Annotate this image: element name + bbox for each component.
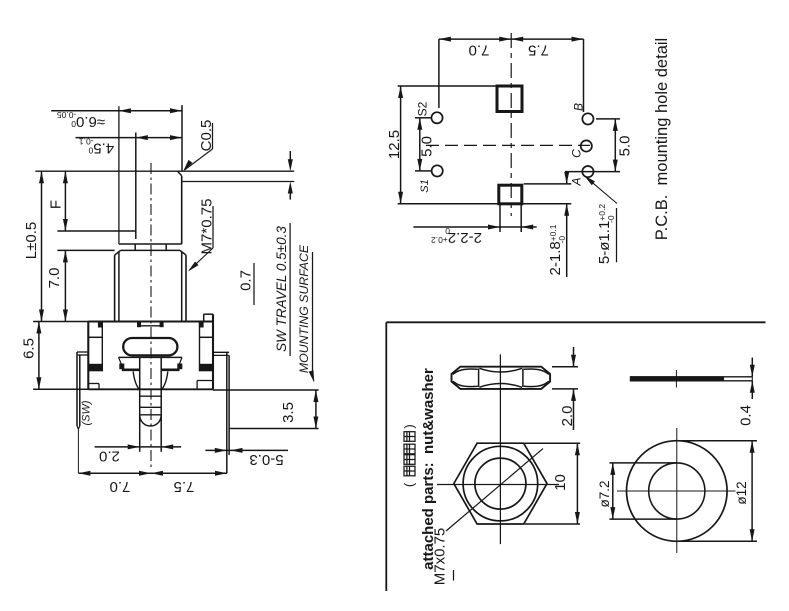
- svg-text:7.5: 7.5: [528, 42, 549, 59]
- svg-text:0.4: 0.4: [737, 405, 754, 426]
- svg-text:7.5: 7.5: [174, 478, 195, 495]
- svg-text:attached parts: nut&washer: attached parts: nut&washer: [420, 368, 437, 570]
- svg-text:P.C.B. mounting hole detail: P.C.B. mounting hole detail: [653, 38, 671, 240]
- svg-text:0.7: 0.7: [238, 270, 255, 291]
- svg-text:7.0: 7.0: [110, 478, 131, 495]
- svg-text:7.0: 7.0: [46, 268, 63, 289]
- svg-text:F: F: [47, 200, 64, 209]
- svg-text:): ): [402, 424, 417, 428]
- svg-text:7.0: 7.0: [469, 42, 490, 59]
- svg-text:MOUNTING SURFACE: MOUNTING SURFACE: [297, 244, 311, 373]
- svg-text:5.0: 5.0: [418, 136, 435, 157]
- svg-text:A: A: [569, 177, 583, 186]
- svg-text:5.0: 5.0: [616, 136, 633, 157]
- svg-text:(SW): (SW): [81, 400, 93, 425]
- svg-text:2.0: 2.0: [559, 406, 576, 427]
- svg-text:M7*0.75: M7*0.75: [198, 199, 215, 255]
- svg-text:2-1.8+0.1-0: 2-1.8+0.1-0: [547, 224, 567, 275]
- svg-text:S2: S2: [415, 101, 429, 116]
- svg-text:6.5: 6.5: [20, 338, 37, 359]
- svg-text:3.5: 3.5: [280, 402, 297, 423]
- svg-text:5-ø1.1+0.2-0: 5-ø1.1+0.2-0: [596, 204, 616, 264]
- svg-text:S1: S1: [419, 179, 431, 192]
- svg-text:C: C: [569, 149, 583, 158]
- svg-text:ø7.2: ø7.2: [597, 480, 612, 507]
- svg-text:2.0: 2.0: [99, 448, 120, 465]
- svg-text:ø12: ø12: [734, 481, 749, 504]
- svg-text:(: (: [402, 482, 417, 487]
- svg-text:≈6.00-0.05: ≈6.00-0.05: [57, 110, 105, 130]
- svg-text:B: B: [572, 103, 586, 111]
- svg-text:C0.5: C0.5: [198, 120, 215, 152]
- svg-text:4.50-0.1: 4.50-0.1: [79, 137, 115, 157]
- svg-text:10: 10: [552, 474, 569, 491]
- svg-text:2-2.2+0.20: 2-2.2+0.20: [431, 226, 482, 246]
- svg-text:12.5: 12.5: [386, 130, 403, 159]
- svg-text:5-0.3: 5-0.3: [249, 451, 283, 468]
- svg-text:SW TRAVEL 0.5±0.3: SW TRAVEL 0.5±0.3: [274, 226, 289, 352]
- svg-text:L±0.5: L±0.5: [23, 222, 40, 259]
